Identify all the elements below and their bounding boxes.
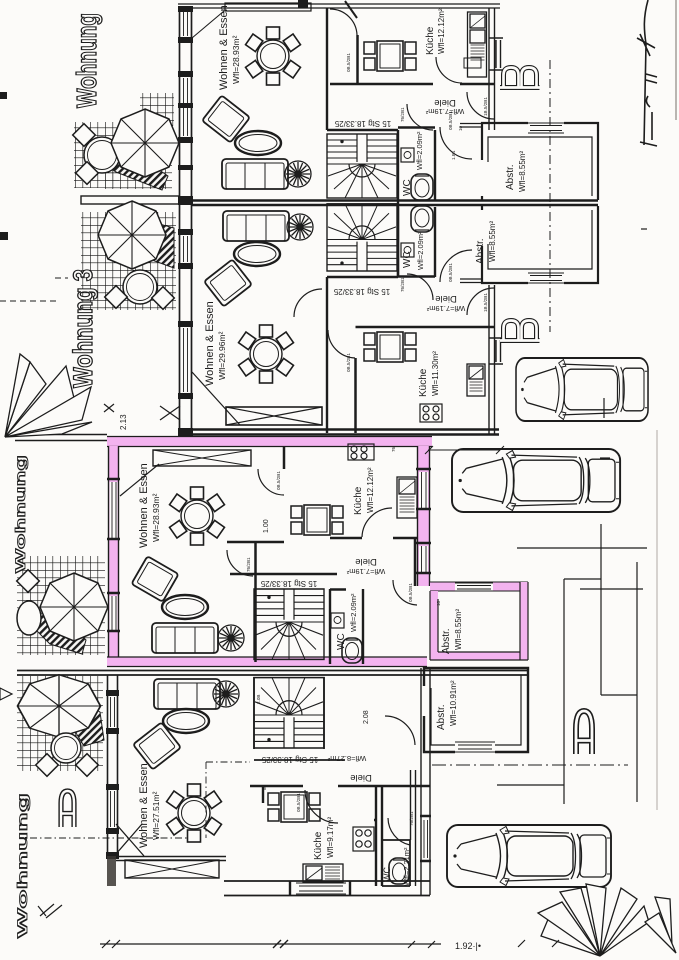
svg-text:Wohnung: Wohnung [71,13,102,108]
svg-text:Wfl=12.12m²: Wfl=12.12m² [437,8,446,54]
unit3 wc sink [331,613,344,628]
unit4 left wall [108,675,118,858]
letter B unit1 [500,68,540,88]
unit4 kitchen table [268,792,320,822]
unit1 stairs [327,134,397,198]
svg-text:Wfl=28.93m²: Wfl=28.93m² [231,35,241,84]
terrace1 paving grid [74,93,174,189]
unit3 sideboard [153,450,251,466]
car B [452,449,620,512]
unit4 stair enclosure [254,677,345,760]
dimension line right of unit3 [425,446,504,454]
svg-text:Küche: Küche [425,26,436,55]
unit3 stove [348,444,374,460]
svg-text:Wfl=7.19m²: Wfl=7.19m² [426,304,465,313]
unit3 kitchen exit arc [362,508,392,537]
svg-text:Abstr.: Abstr. [475,238,486,264]
unit3 entrance door arc [393,580,417,605]
unit2 wc toilet [411,206,433,232]
svg-text:76/2B1: 76/2B1 [400,107,405,122]
unit2 living-diele door arc [294,289,322,317]
palm bottom right [538,884,676,956]
svg-text:76: 76 [391,446,396,452]
unit1 stair enclosure walls [327,8,398,130]
terrace4 path hatch [68,698,104,746]
terrace3 path hatch [34,610,86,654]
unit4 sideboard [125,860,219,878]
svg-text:76/2B1: 76/2B1 [409,811,414,826]
unit1 armchair [202,95,250,142]
terrace3 parasol [40,573,108,641]
svg-text:Wfl=2.09m²: Wfl=2.09m² [349,593,358,632]
unit4 hall door arc [103,786,131,814]
unit1 oval table [235,131,281,155]
unit4 left wall sills [106,690,119,859]
terrace3 chair [17,570,40,593]
unit2 wc sink [401,243,414,257]
terrace1 chairs [73,124,96,147]
bottom left ticks [38,904,62,918]
terrace2 table [123,270,157,304]
right exterior wall unit 1 kitchen [489,8,503,130]
unit3 sofa [152,623,218,653]
svg-text:Wfl=8.27m²: Wfl=8.27m² [327,754,366,763]
dash-dot road line bottom [432,764,628,766]
unit4 stairs [254,678,324,748]
svg-text:Wfl=8.55m²: Wfl=8.55m² [454,609,463,650]
unit4 entry corridor walls [411,668,431,895]
terrace2 parasol [98,201,166,269]
terrace2 path hatch [152,222,174,268]
unit4 sink counter [303,864,343,882]
svg-text:0B.5/2B1: 0B.5/2B1 [276,471,281,490]
unit1 dining table [246,27,301,85]
unit4 plant [213,681,239,707]
left edge mark1 [0,92,7,99]
unit2 abstr connector wall [460,279,482,283]
party wall unit1/unit2 [192,201,598,206]
svg-text:Küche: Küche [313,831,324,860]
unit3 left wall pink [107,446,120,662]
svg-text:76/2B1: 76/2B1 [400,277,405,292]
unit4 living bottom wall [116,857,226,861]
unit1 entrance door arc [467,92,494,119]
unit1 kitchen counter with sink [468,12,487,77]
svg-text:Diele: Diele [350,772,372,783]
svg-text:Küche: Küche [418,368,429,397]
svg-text:Wfl=11.30m²: Wfl=11.30m² [431,351,440,396]
svg-text:Abstr.: Abstr. [436,704,447,730]
unit3 kitchen table [291,505,343,535]
svg-text:Wfl=28.93m²: Wfl=28.93m² [151,493,161,542]
unit1 terrace door swing [192,11,224,38]
unit2 kitchen walls [356,327,495,433]
unit4 oval table [163,709,209,733]
unit3 kitchen counter [397,477,417,518]
svg-text:1B.5/2B1: 1B.5/2B1 [483,293,488,312]
svg-text:0B.5/2B1: 0B.5/2B1 [296,793,301,812]
svg-text:15 Stg 18.33/25: 15 Stg 18.33/25 [334,119,391,128]
unit3 stairs [254,589,324,659]
unit1 plant [285,161,311,187]
svg-text:Wfl=2.09m²: Wfl=2.09m² [416,231,425,270]
svg-text:Wohnung 3: Wohnung 3 [68,269,98,388]
terrace4 paving grid [17,676,103,771]
svg-text:Wfl=9.17m²: Wfl=9.17m² [326,817,335,858]
unit3 wc walls [330,589,363,664]
svg-text:Wohnung: Wohnung [12,455,28,573]
unit2 oval table [234,242,280,266]
svg-text:Wfl=10.91m²: Wfl=10.91m² [449,680,458,726]
unit4 bottom exterior wall [224,881,430,896]
site wall left of unit3 [15,435,107,441]
svg-text:Diele: Diele [434,97,456,108]
svg-text:Wohnung: Wohnung [14,793,30,938]
unit3 armchair [131,556,178,602]
dimension 2.13 arrow [104,404,180,420]
terrace2 paving grid [81,212,176,310]
unit3 abstr corridor pink [430,582,528,591]
unit1 wc sink [401,148,414,162]
svg-text:Wohnen & Essen: Wohnen & Essen [204,301,216,386]
unit2 terrace door swing [192,372,240,425]
svg-text:76/2B1: 76/2B1 [246,557,251,572]
unit3 oval table [162,595,208,619]
unit3 terrace door swing [120,464,159,496]
unit3 top wall pink [107,437,432,447]
svg-text:0B.5/2B1: 0B.5/2B1 [448,111,453,130]
unit2 stairs [327,204,397,271]
dashed boundary left [0,278,68,301]
svg-text:Diele: Diele [435,293,457,304]
unit4 stove [353,827,374,851]
svg-text:2.13: 2.13 [119,414,128,430]
unit1 sofa [222,159,288,189]
unit4 abstr room [424,668,528,754]
left edge mark2 [0,232,8,240]
unit3 wc toilet [342,638,362,663]
svg-text:WC: WC [382,867,392,882]
unit4 wc toilet [389,858,409,884]
unit4 wall corner brace [116,824,144,856]
letter A left [61,791,74,827]
unit1 rear hall door arc [440,127,472,159]
svg-text:Wfl=7.19m²: Wfl=7.19m² [425,107,464,116]
svg-text:Wfl=8.55m²: Wfl=8.55m² [518,151,527,192]
svg-text:0B.5/2B1: 0B.5/2B1 [448,263,453,282]
unit3 plant [218,625,244,651]
svg-text:Wohnen & Essen: Wohnen & Essen [138,463,150,548]
svg-text:2.08: 2.08 [363,710,370,724]
unit4 dash reference lines [30,762,250,838]
unit1 kitchen/living wall [330,35,494,84]
unit2 sideboard [226,407,322,425]
unit3 hall door arc [227,550,253,576]
unit3 kitchen door arc [258,469,284,495]
svg-text:Küche: Küche [353,486,364,515]
terrace1 path hatch [96,140,168,190]
svg-text:Wohnen & Essen: Wohnen & Essen [138,763,150,848]
unit4 entry door arc [385,716,415,745]
unit4 corner smudge [107,856,116,886]
unit2 kitchen counter [467,364,485,396]
svg-text:Wfl=2.09m²: Wfl=2.09m² [415,131,424,170]
unit3 bottom wall pink [107,657,427,667]
unit2 wc walls [398,207,435,277]
terrace4 parasol [18,675,101,738]
unit2 sofa [223,211,289,241]
terrace4 table [51,733,81,763]
unit2 abstr room [482,206,598,285]
big label Wohnung 3 [68,269,98,388]
left edge arrow [0,688,12,700]
big label Wohnung top [71,13,102,108]
terrace1 parasol [111,109,179,177]
unit3 dining table [170,487,225,545]
scan artifact line right [656,430,658,810]
svg-text:10: 10 [458,125,463,131]
road lines bottom right [497,229,647,804]
svg-text:0B.5/2B1: 0B.5/2B1 [346,353,351,372]
unit2 stair enclosure walls [327,200,398,433]
road tick vertical [600,524,602,560]
unit1 sideboard [225,3,311,11]
unit4 armchair [133,722,181,769]
small door labels [246,53,488,826]
terrace2 chairs [105,286,128,309]
svg-text:Wfl=2.21m²: Wfl=2.21m² [402,847,411,886]
unit2 kitchen door arc [328,330,355,358]
unit2 kitchen table [364,332,416,362]
scan artifact top right [675,0,677,120]
right exterior wall unit 2 [489,285,503,434]
svg-text:WC: WC [336,633,347,650]
unit1 wc walls [398,128,435,201]
letter B unit2 [500,321,540,341]
unit1 abstr connector wall [460,124,482,128]
unit1 wc toilet [411,174,433,200]
unit3 abstr room pink walls [430,582,528,660]
svg-text:2.0B: 2.0B [256,695,261,704]
unit1 kitchen-diele door arc [436,57,462,83]
terrace1 table [84,137,120,173]
unit3 kitchen walls [227,447,417,662]
svg-text:15 Stg 18.33/25: 15 Stg 18.33/25 [333,287,390,296]
car C [447,825,611,887]
unit2 diele-stair door arc [407,274,433,300]
svg-text:1B.5/2B1: 1B.5/2B1 [483,97,488,116]
road sketch line top right [637,0,657,146]
unit2 entrance door arc [467,288,494,315]
unit4 wc walls [382,840,410,886]
unit1 bl box [464,58,481,68]
unit1 diele-stair door arc [407,104,433,130]
road line right of car A [517,547,647,549]
terrace divider wall [81,196,179,204]
palm plant left edge [5,354,92,437]
unit4 sofa [154,679,220,709]
svg-text:15 Stg 18.33/25: 15 Stg 18.33/25 [261,755,318,764]
unit2 armchair [204,259,252,306]
terrace3 paving grid [17,556,105,655]
unit4 kitchen door arc [305,790,338,823]
unit2 plant [287,214,313,240]
svg-text:1.B1: 1.B1 [451,150,456,160]
unit4 kitchen walls [250,786,430,886]
unit1 abstr room [482,121,598,200]
svg-text:Diele: Diele [355,556,377,567]
svg-text:15 Stg 18.33/25: 15 Stg 18.33/25 [260,579,317,588]
bottom wall of section 1 [192,430,499,435]
svg-text:Wfl=27.51m²: Wfl=27.51m² [151,791,161,840]
svg-text:Wfl=29.96m²: Wfl=29.96m² [217,331,227,380]
party wall unit3/unit4 [17,671,528,676]
unit4 dining table [167,784,222,842]
left exterior wall unit 1+2 [180,8,192,436]
top page edge line [178,0,500,18]
svg-text:Wfl=12.12m²: Wfl=12.12m² [366,467,375,513]
letter A right [576,711,592,754]
property dash line vertical [549,60,551,332]
svg-text:Wfl=7.19m²: Wfl=7.19m² [346,567,385,576]
unit2 stove [420,404,442,422]
unit1 kitchen table [364,41,416,71]
terrace3 table [17,601,41,635]
svg-text:0B.5/2B1: 0B.5/2B1 [408,583,413,602]
svg-text:WC: WC [402,251,413,268]
svg-text:80: 80 [262,784,267,790]
svg-text:1.92·|•: 1.92·|• [455,941,481,951]
svg-text:1.00: 1.00 [263,519,270,533]
terrace4 chairs [36,754,59,777]
unit1 kitchen door arc [330,9,357,35]
car A [516,358,648,421]
unit3 right wall pink [416,446,431,586]
svg-text:0B.5/2B1: 0B.5/2B1 [346,53,351,72]
unit2 dining table [239,325,294,383]
dimension line bottom [100,940,559,948]
wall sill blocks left wall [178,6,193,436]
svg-text:Abstr.: Abstr. [441,628,452,654]
unit4 wc door arc [388,818,410,845]
svg-text:Wfl=8.55m²: Wfl=8.55m² [488,221,497,262]
svg-text:WC: WC [402,179,413,196]
unit2 rear hall door arc [440,250,472,282]
svg-text:Abstr.: Abstr. [505,164,516,190]
svg-text:Wohnen & Essen: Wohnen & Essen [218,5,230,90]
svg-text:10: 10 [436,600,441,606]
